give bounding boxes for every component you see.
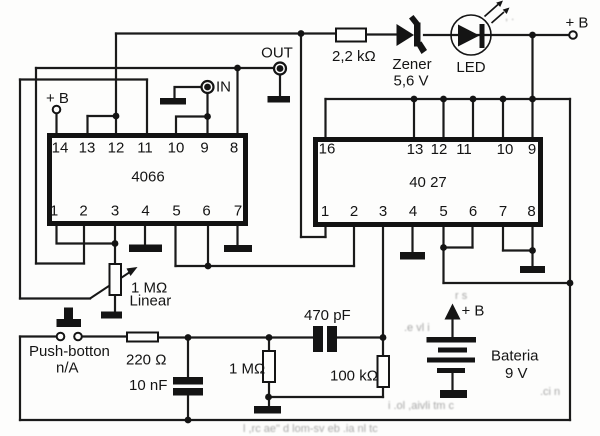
svg-text:9 V: 9 V xyxy=(505,365,528,382)
node top rail to 4027 pin 1 xyxy=(298,30,305,37)
svg-text:12: 12 xyxy=(431,141,448,158)
svg-text:+ B: + B xyxy=(462,303,485,320)
wire vertical 4027 pin 12 xyxy=(442,99,444,138)
potentiometer wiper arrow xyxy=(90,267,138,299)
wire 4066 pin 7 to ground xyxy=(236,225,238,245)
wire vertical 4027 pin 7 xyxy=(502,225,504,251)
wire horizontal 4066 pin5/6 to 4027 pin 2 xyxy=(176,265,355,267)
wire IN jog to 4066 pin 10 xyxy=(176,117,208,134)
node 4027 pin 5 xyxy=(440,244,447,251)
wire right rail xyxy=(569,99,571,420)
svg-text:100 kΩ: 100 kΩ xyxy=(330,368,378,385)
svg-text:Bateria: Bateria xyxy=(491,348,539,365)
svg-text:l ,rc ae" d lom-sv eb .ia: l ,rc ae" d lom-sv eb .ia nl tc xyxy=(243,423,378,435)
svg-text:2: 2 xyxy=(79,203,87,220)
wire ground node to resistor 100k xyxy=(269,396,384,398)
wire 4027 pin 3 down xyxy=(382,225,384,355)
LED D2 xyxy=(451,15,491,55)
node bus pin 9 xyxy=(529,96,536,103)
wire OUT terminal to ground xyxy=(279,75,281,96)
svg-text:6: 6 xyxy=(469,203,477,220)
wire 4027 pin 4 to ground xyxy=(411,225,413,252)
IC U2 4027 xyxy=(316,140,541,225)
wire push button contact 2 to resistor 220 xyxy=(82,335,127,337)
wire bottom border xyxy=(20,419,570,421)
svg-text:9: 9 xyxy=(528,141,536,158)
wire vertical 4066 pin 2 xyxy=(83,225,85,264)
ground under IN xyxy=(160,98,186,105)
svg-text:1 MΩ: 1 MΩ xyxy=(229,361,265,378)
wire left vertical OUT net xyxy=(35,68,37,264)
wire pot bottom to ground xyxy=(114,296,116,312)
svg-text:.e vl i: .e vl i xyxy=(404,322,430,334)
wire battery plus arrow stem xyxy=(451,317,453,337)
wire +B terminal to 4066 pin 14 xyxy=(55,114,57,134)
terminal IN xyxy=(202,81,214,93)
wire vertical 4066 pin 5 xyxy=(174,225,176,266)
node 1M bottom ground xyxy=(265,394,272,401)
svg-text:11: 11 xyxy=(456,141,472,158)
node 10nF top xyxy=(185,334,192,341)
wire IN down to 4066 pin 9 xyxy=(206,93,208,133)
resistor R1 2,2k xyxy=(336,29,366,42)
potentiometer P1 1M body xyxy=(110,264,122,295)
svg-text:Zener: Zener xyxy=(392,56,431,73)
wire resistor R1 to zener xyxy=(367,33,397,35)
wire capacitor 470pF to node xyxy=(336,336,383,338)
svg-text:, .: , . xyxy=(505,11,514,23)
svg-text:1: 1 xyxy=(50,203,58,220)
node pins 12/13 tie xyxy=(113,113,120,120)
wire 4066 pin 1 to pot top xyxy=(57,225,116,244)
wire vertical 4066 pin 6 xyxy=(207,225,209,266)
node right rail xyxy=(567,280,574,287)
wire capacitor 10nF to bottom border xyxy=(187,396,189,421)
zener diode D1 xyxy=(397,15,428,54)
wire horizontal pin5 to pin6 xyxy=(444,246,473,248)
svg-text:3: 3 xyxy=(379,203,387,220)
svg-text:12: 12 xyxy=(108,140,125,157)
wire resistor 220 to capacitor 470pF xyxy=(159,336,314,338)
wire vertical to 4066 pin 12 xyxy=(115,34,117,134)
svg-text:4066: 4066 xyxy=(131,169,164,186)
node bus pin 11 xyxy=(470,96,477,103)
svg-text:Linear: Linear xyxy=(130,293,172,310)
svg-text:16: 16 xyxy=(319,141,336,158)
IC U1 4066 xyxy=(50,136,246,224)
terminal +B at 4066 pin 14 xyxy=(53,106,61,114)
ground under 4066 pin 7 xyxy=(224,245,252,252)
resistor R2 220 xyxy=(127,333,158,342)
svg-text:4: 4 xyxy=(141,203,149,220)
svg-text:6: 6 xyxy=(202,203,210,220)
svg-text:220 Ω: 220 Ω xyxy=(126,352,166,369)
capacitor C2 470pF xyxy=(313,326,337,352)
svg-text:470 pF: 470 pF xyxy=(304,307,351,324)
svg-text:7: 7 xyxy=(234,203,242,220)
svg-text:7: 7 xyxy=(499,203,507,220)
svg-text:IN: IN xyxy=(216,79,231,96)
node bus pin 12 xyxy=(440,96,447,103)
wire OUT line xyxy=(36,67,274,69)
svg-text:2,2 kΩ: 2,2 kΩ xyxy=(332,48,376,65)
wire vertical 4027 pin 13 xyxy=(413,99,415,138)
wire 4066 pin 4 to ground xyxy=(144,225,146,245)
wire stub 4027 pin 1 xyxy=(324,225,326,237)
push button contact 2 xyxy=(74,333,82,341)
wire vertical 4027 pin 5 down xyxy=(442,225,444,283)
svg-text:4: 4 xyxy=(409,203,417,220)
svg-text:3: 3 xyxy=(111,203,119,220)
wire to push button contact 1 xyxy=(20,335,57,337)
node bus pin 10 xyxy=(500,96,507,103)
wire vertical 4066 pin 11 xyxy=(146,80,148,134)
wire pin 13 tie horizontal xyxy=(88,115,117,117)
wire horizontal OUT net to pin 2 xyxy=(36,262,84,264)
resistor R4 100k xyxy=(378,356,390,387)
node pin 6 on line xyxy=(205,263,212,270)
scan show-through ghost text (decorative) xyxy=(243,11,560,435)
wire zener to +B terminal through LED xyxy=(424,34,569,36)
svg-text:11: 11 xyxy=(137,140,153,157)
svg-text:LED: LED xyxy=(456,59,485,76)
node pin 3 / 470pF / 100k xyxy=(380,334,387,341)
wire 4027 pin 8 to ground xyxy=(531,225,533,266)
ground under resistor 1M xyxy=(254,406,281,414)
svg-text:2: 2 xyxy=(350,203,358,220)
svg-text:r s: r s xyxy=(455,290,468,302)
svg-text:Push-botton: Push-botton xyxy=(29,343,110,360)
capacitor C1 10nF xyxy=(173,377,203,396)
wire vertical 4027 pin 11 xyxy=(472,99,474,138)
wire horizontal to 4027 pin 1 xyxy=(301,236,326,238)
svg-text:8: 8 xyxy=(527,203,535,220)
wire vertical 4066 pin 13 xyxy=(86,116,88,133)
wire node to capacitor 10nF xyxy=(187,338,189,378)
push button S1 actuator xyxy=(57,308,82,328)
svg-text:5: 5 xyxy=(439,203,447,220)
ground under 4027 pin 4 xyxy=(400,252,425,260)
terminal OUT xyxy=(274,63,286,75)
svg-text:1: 1 xyxy=(321,203,329,220)
wire horizontal to wiper xyxy=(20,297,90,299)
wire vertical top rail to 4027 pin 1 xyxy=(300,34,302,238)
node OUT to pin 8 xyxy=(234,65,241,72)
wire vertical 4027 pin 16 xyxy=(324,99,326,138)
wire LED junction to 4027 pin 9 xyxy=(531,35,533,138)
svg-text:9: 9 xyxy=(200,140,208,157)
battery +B arrow xyxy=(445,304,461,320)
wire 4066 pin 3 to pot xyxy=(114,225,116,263)
svg-text:.ci n: .ci n xyxy=(540,386,560,398)
resistor R3 1M xyxy=(263,351,275,382)
svg-text:13: 13 xyxy=(79,140,96,157)
push button contact 1 xyxy=(57,333,65,341)
wire left vertical to wiper xyxy=(19,80,21,299)
node LED output xyxy=(529,32,536,39)
wire top rail left xyxy=(116,32,336,34)
node bus pin 13 xyxy=(411,96,418,103)
node 10nF bottom xyxy=(185,417,192,424)
ground under 4027 pin 8 xyxy=(520,266,545,273)
svg-text:10: 10 xyxy=(168,140,185,157)
ground under potentiometer xyxy=(101,312,122,319)
svg-text:5,6 V: 5,6 V xyxy=(393,73,428,90)
node 4027 pins 7/8 xyxy=(529,247,536,254)
node IN split xyxy=(204,113,211,120)
wire pins 5/6 to right rail xyxy=(444,282,571,284)
terminal +B top right xyxy=(569,31,577,39)
battery B1 xyxy=(427,337,477,398)
svg-text:OUT: OUT xyxy=(261,45,293,62)
wire left bottom border xyxy=(19,337,21,421)
svg-text:14: 14 xyxy=(52,140,69,157)
ground under OUT xyxy=(268,96,291,103)
LED light arrows xyxy=(485,1,510,24)
wire node to resistor 1M xyxy=(268,338,270,351)
wire horizontal pin 7 to pin 8 xyxy=(503,249,533,251)
wire resistor 100k bottom xyxy=(382,388,384,397)
svg-text:40 27: 40 27 xyxy=(409,174,447,191)
svg-text:8: 8 xyxy=(230,140,238,157)
wire battery negative stem xyxy=(451,373,453,390)
wire vertical 4027 pin 2 xyxy=(353,225,355,266)
wire vertical 4027 pin 6 xyxy=(471,225,473,248)
svg-text:10: 10 xyxy=(497,141,514,158)
svg-text:i .ol ,aivli tm c: i .ol ,aivli tm c xyxy=(388,400,455,412)
wire IN to ground xyxy=(175,87,202,98)
svg-text:10 nF: 10 nF xyxy=(129,377,167,394)
wire resistor 1M to ground xyxy=(268,383,270,406)
wire supply bus above 4027 xyxy=(326,98,571,100)
node 1M top xyxy=(266,334,273,341)
svg-text:n/A: n/A xyxy=(56,360,79,377)
svg-text:13: 13 xyxy=(407,141,424,158)
wire vertical OUT to 4066 pin 8 xyxy=(236,68,238,133)
svg-text:+ B: + B xyxy=(566,15,589,32)
svg-text:5: 5 xyxy=(172,203,180,220)
wire B horizontal to pin 11 xyxy=(20,78,147,80)
node pot top xyxy=(112,240,119,247)
svg-text:+ B: + B xyxy=(46,90,69,107)
wire vertical 4027 pin 10 xyxy=(502,99,504,138)
ground under 4066 pin 4 xyxy=(129,245,162,253)
